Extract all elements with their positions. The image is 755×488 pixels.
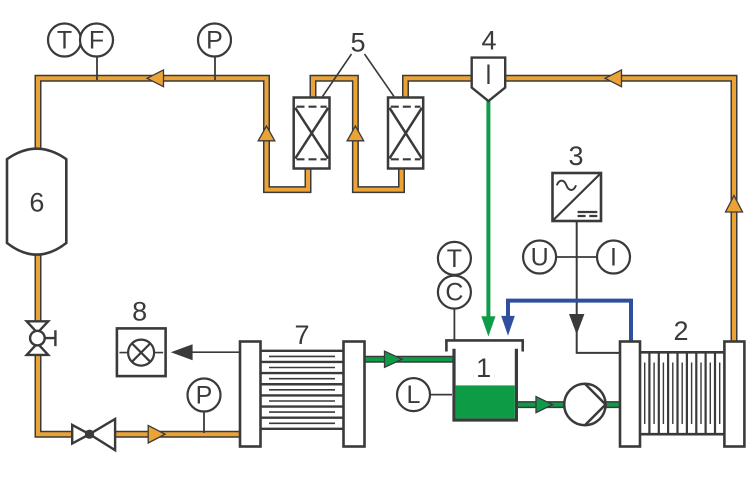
wire blue line: tank 1 to radiator 2	[508, 301, 631, 343]
instrument I	[597, 241, 630, 274]
svg-text:8: 8	[132, 296, 147, 326]
svg-text:L: L	[407, 381, 421, 409]
control valve V2 on bottom run	[72, 419, 115, 450]
wire green drain line: separator 4 to tank 1	[486, 99, 490, 317]
svg-text:7: 7	[294, 320, 309, 350]
instrument stem P top	[214, 56, 216, 80]
svg-text:P: P	[196, 382, 213, 410]
pump P1	[564, 384, 605, 425]
radiator 2	[620, 316, 744, 447]
fan box 8	[117, 296, 166, 376]
wire green pipe: heat exchanger 7 to tank 1	[362, 356, 454, 363]
instrument T at tank	[438, 242, 471, 275]
instrument stem F	[96, 56, 98, 80]
instrument link U to I	[556, 256, 597, 258]
separator 4	[472, 26, 506, 102]
dryer column 5a	[294, 98, 330, 169]
wire orange pipe: vessel 6 top to main top run to left riser to column A bottom	[38, 78, 308, 189]
svg-text:5: 5	[350, 27, 365, 57]
svg-text:I: I	[610, 244, 617, 272]
wire orange pipe: valve to bottom run to heat exchanger 7	[38, 352, 243, 434]
wire orange pipe: separator 4 to top right corner down to radiator 2	[503, 78, 734, 344]
arrow black down on electric line	[569, 314, 584, 335]
vessel 6	[7, 149, 66, 255]
heat exchanger 7	[240, 320, 365, 447]
label 5 pointer lines	[323, 54, 395, 97]
svg-text:P: P	[206, 27, 223, 55]
arrow green right into pump	[536, 397, 553, 413]
wire green pipe: pump to radiator 2	[603, 401, 622, 408]
svg-text:2: 2	[673, 316, 688, 346]
instrument T top left	[48, 24, 81, 57]
svg-text:3: 3	[568, 141, 583, 171]
wire orange pipe: column A top to middle riser to column B bottom	[313, 78, 402, 189]
svg-text:6: 6	[29, 188, 44, 218]
dryer column 5b	[388, 98, 423, 169]
instrument stem P bottom	[203, 411, 205, 433]
instrument P top	[198, 24, 231, 57]
instrument F	[80, 24, 113, 57]
svg-text:T: T	[57, 27, 72, 55]
wire orange pipe: vessel 6 bottom to valve	[35, 252, 42, 324]
instrument P bottom	[188, 379, 221, 412]
arrow orange up on right riser	[726, 196, 743, 213]
svg-text:T: T	[447, 245, 462, 273]
arrow green down into tank 1	[481, 316, 495, 336]
tank 1	[445, 340, 524, 420]
wire black electric line: converter 3 to radiator 2	[577, 221, 621, 353]
instrument U	[523, 241, 556, 274]
svg-text:U: U	[531, 244, 549, 272]
wire orange pipe: column B top to separator 4	[406, 78, 475, 100]
arrow orange up on middle riser	[347, 126, 364, 141]
converter U3	[553, 141, 602, 221]
svg-text:F: F	[89, 27, 104, 55]
wire green pipe: tank 1 to pump	[515, 401, 567, 408]
instrument stem C	[453, 309, 455, 341]
arrow orange left on top main run	[147, 70, 164, 87]
arrow orange right on bottom run	[148, 425, 165, 443]
svg-text:4: 4	[481, 26, 496, 56]
svg-text:1: 1	[476, 353, 491, 383]
instrument stem L	[430, 394, 452, 396]
svg-text:C: C	[445, 279, 463, 307]
instrument C at tank	[438, 276, 471, 309]
arrow orange up on left riser	[258, 126, 275, 141]
valve V1 on vessel line	[27, 321, 56, 355]
wire: heat exchanger 7 to fan box 8 with arrow	[191, 351, 241, 353]
instrument L	[397, 378, 430, 411]
arrow green right into tank 1	[385, 351, 403, 367]
arrow orange left on top right run	[605, 70, 622, 87]
arrow blue down into tank 1	[501, 316, 515, 336]
